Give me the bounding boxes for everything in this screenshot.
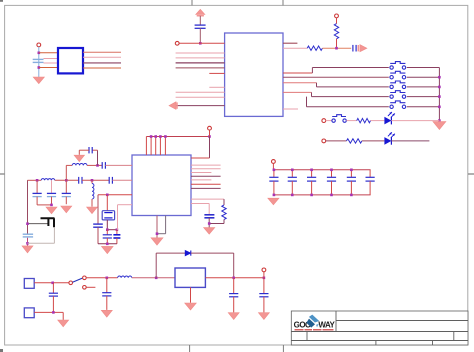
- junction C13 bottom: [52, 311, 55, 314]
- ground at bus bottom: [433, 122, 446, 130]
- capacitor C13: [327, 170, 336, 195]
- junction U2 top bus 3: [154, 135, 157, 138]
- wire C7 right leg vertical: [97, 150, 99, 165]
- terminal T2 on U1 pin1 net: [175, 41, 179, 45]
- title block outer box: [291, 311, 468, 345]
- capacitor C10: [47, 193, 56, 196]
- pushbutton SW6: [332, 115, 346, 123]
- wire D2 out: [391, 140, 429, 142]
- junction U2 top bus right: [208, 135, 211, 138]
- wire R5 to C17 bottom: [209, 223, 224, 225]
- wire U2 top pin 5: [164, 137, 166, 156]
- crystal oscillator X1: [58, 48, 83, 73]
- title block date cell divider: [375, 341, 377, 346]
- capacitor C3: [353, 45, 356, 52]
- wire joining bottom pins: [157, 233, 166, 235]
- corner zone mark top-left: [0, 0, 3, 2]
- wire X1 pin3: [44, 62, 58, 64]
- wire T1 to ground rail: [38, 47, 40, 77]
- ground cap bank: [268, 198, 279, 205]
- capacitor C18: [93, 224, 103, 227]
- wire U2 pin to C17: [191, 203, 209, 205]
- switch S1 pole: [69, 276, 86, 285]
- capacitor C14: [347, 170, 356, 195]
- svg-text:WAY: WAY: [318, 321, 335, 330]
- LED D1: [384, 112, 395, 124]
- switch S1 unused throw: [83, 286, 96, 290]
- capacitor C2: [195, 25, 206, 28]
- U2 bottom pin b: [165, 216, 167, 234]
- junction xtal top: [106, 194, 109, 197]
- ground below U2: [151, 238, 163, 245]
- logo diamond icon: [306, 315, 319, 328]
- RF rail2 segment b: [55, 179, 79, 181]
- capacitor C16: [259, 278, 268, 313]
- key matrix column bus: [438, 68, 440, 121]
- U1 left pin stub 3: [176, 57, 225, 59]
- wire SW5 jog vertical: [306, 97, 308, 107]
- wire X1 pin2: [44, 58, 58, 60]
- wire SW3 jog vertical: [316, 83, 318, 87]
- U2 right pin stub 6: [191, 183, 221, 185]
- wire R2 bottom: [336, 39, 338, 48]
- frame tick right zone divider: [468, 173, 474, 175]
- antenna ANT1 PCB symbol: [41, 218, 55, 227]
- ground below C10: [46, 207, 57, 214]
- wire U1 output net with left arrow: [171, 105, 225, 107]
- U1 right pin dark stub: [283, 42, 297, 44]
- wire row2 to R4: [326, 140, 347, 142]
- op-amp U1 main IC: [225, 33, 283, 116]
- junction bypass left: [155, 277, 158, 280]
- ground below regulator: [185, 303, 197, 310]
- junction bus row 5: [438, 106, 441, 109]
- capacitor C15: [229, 278, 238, 313]
- terminal above U2 right: [208, 126, 212, 130]
- wire C18 top vertical: [97, 195, 99, 224]
- junction rail2 left: [36, 179, 39, 182]
- wire xtal bottom tie: [107, 229, 117, 231]
- junction cap bank bottom x331: [330, 194, 333, 197]
- capacitor C17: [204, 215, 214, 218]
- junction C17 R5 ground: [208, 222, 211, 225]
- pushbutton SW4: [390, 91, 406, 99]
- corner zone mark bottom-left: [0, 349, 3, 352]
- cap bank bottom rail: [273, 194, 370, 196]
- junction cap bank bottom x311: [310, 194, 313, 197]
- resistor R1: [307, 46, 322, 50]
- junction xtal ground: [106, 243, 109, 246]
- connector J2 pad: [24, 308, 34, 318]
- RF rail2 segment d: [112, 179, 132, 181]
- capacitor C12: [307, 170, 316, 195]
- capacitor C9: [33, 193, 42, 196]
- terminal LED row2: [322, 139, 326, 143]
- wire gray return rail: [28, 242, 55, 244]
- wire U1 pin1: [179, 42, 225, 44]
- frame tick left zone divider: [0, 173, 5, 175]
- wire to SW3: [317, 86, 389, 88]
- junction cap bank bottom x292: [291, 194, 294, 197]
- junction C12 bottom: [26, 242, 29, 245]
- cap bank top rail: [273, 169, 370, 171]
- pushbutton SW5: [390, 101, 406, 109]
- capacitor C14: [102, 278, 111, 310]
- connector J1 pad: [24, 279, 34, 289]
- resistor R2: [334, 24, 338, 39]
- title block row line 2: [291, 331, 468, 333]
- title block sheet cell divider: [432, 341, 434, 346]
- inductor L1: [72, 164, 87, 166]
- capacitor C19: [103, 230, 112, 244]
- wire C7 left leg vertical: [78, 150, 80, 155]
- wire X1 pin4: [39, 67, 58, 69]
- wire SW2 to column bus: [407, 76, 440, 78]
- ground at J2 rail: [58, 320, 69, 327]
- U1 left pin stub 8: [176, 91, 225, 93]
- wire X1 out2: [83, 56, 121, 58]
- wire row1 to SW6: [326, 120, 332, 122]
- wire C17 top vertical: [208, 204, 210, 215]
- capacitor C6 series on rail2: [109, 177, 112, 184]
- junction at X1 pin1 rail: [38, 52, 41, 55]
- wire D1 to bus: [391, 120, 439, 122]
- title block row line 1: [336, 320, 468, 322]
- wire SW1 jog vertical: [311, 68, 313, 74]
- wire R5 bottom vertical: [223, 220, 225, 224]
- wire bypass up: [155, 253, 157, 278]
- wire X1 pin1: [39, 52, 58, 54]
- junction cap bank top x311: [310, 169, 313, 172]
- title block row line 3: [291, 340, 468, 342]
- terminal T1: [37, 43, 41, 47]
- U1 left pin stub 2: [176, 52, 225, 54]
- junction cap bank top x351: [350, 169, 353, 172]
- U1 right pin pink stub: [283, 108, 298, 110]
- wire X1 out1: [83, 51, 121, 53]
- capacitor C11: [62, 193, 71, 196]
- junction U2 top bus 5: [164, 135, 167, 138]
- junction bus row 4: [438, 95, 441, 98]
- junction rail2 mid: [65, 179, 68, 182]
- frame tick bottom-right zone divider: [282, 345, 284, 352]
- wire SW4 to column bus: [407, 96, 440, 98]
- resistor R4: [347, 139, 362, 143]
- junction rail2 at L3: [91, 179, 94, 182]
- junction bus LED row: [438, 119, 441, 122]
- logo red tagline: [295, 329, 334, 331]
- inductor L4: [118, 276, 132, 278]
- wire down to ground: [62, 312, 64, 320]
- inductor L2: [41, 179, 55, 181]
- RF rail1 segment b: [87, 164, 102, 166]
- wire C2 to U1 pin1 net: [199, 28, 201, 43]
- junction antenna feed: [26, 222, 29, 225]
- capacitor C7: [89, 147, 92, 153]
- RF rail1 segment c: [105, 164, 132, 166]
- wire U1 pin to SW3 jog: [283, 82, 317, 84]
- pushbutton SW2: [390, 71, 406, 79]
- ground below Y1: [102, 246, 114, 253]
- wire switch to L4: [86, 277, 117, 279]
- junction at C13 top: [51, 282, 54, 285]
- terminal 5V output: [262, 268, 266, 272]
- junction xtal cap node left: [106, 228, 109, 231]
- U1 left pin stub 5: [176, 67, 225, 69]
- wire R4 to D2: [362, 140, 385, 142]
- logo GOODWAY text: [294, 321, 336, 330]
- power arrow left on U1 net: [169, 102, 177, 110]
- U2 right pin stub 7: [191, 187, 221, 189]
- wire U1 pin to SW1 jog: [283, 72, 312, 74]
- junction regulator out terminal: [263, 277, 266, 280]
- junction cap bank bottom-left: [273, 194, 276, 197]
- wire to SW4: [312, 96, 389, 98]
- ground below C17 R5: [204, 228, 215, 235]
- wire C7 right leg horizontal: [92, 149, 97, 151]
- ground below C14: [101, 310, 112, 317]
- wire C9 bottom: [36, 197, 38, 205]
- ground below C11: [61, 206, 72, 213]
- wire R5 top vertical: [223, 199, 225, 205]
- wire C10 top: [51, 180, 53, 193]
- U2 right pin stub 2: [191, 168, 221, 170]
- junction cap bank bottom x351: [350, 194, 353, 197]
- wire C11 bottom: [65, 197, 67, 205]
- wire SW5 to column bus: [407, 106, 440, 108]
- capacitor C12 series antenna: [23, 234, 33, 237]
- U2 right pin stub 1: [191, 164, 221, 166]
- capacitor C20: [113, 230, 120, 244]
- RF rail2 segment a: [28, 179, 42, 181]
- capacitor C15: [366, 170, 375, 195]
- U1 left pin stub 9: [176, 96, 225, 98]
- junction U2 top bus 2: [150, 135, 153, 138]
- wire bypass top a: [156, 252, 185, 254]
- junction R1 R2 C3: [335, 47, 338, 50]
- RF rail2 segment c: [82, 179, 109, 181]
- wire X1 out3: [83, 62, 121, 64]
- wire C9 top: [36, 180, 38, 193]
- wire C18 bottom vertical: [97, 227, 99, 244]
- wire rails connector: [65, 165, 67, 180]
- title block rev cell divider: [453, 332, 455, 341]
- wire U2 top pin 1: [145, 137, 147, 156]
- LED D2: [384, 132, 395, 144]
- wire L3 bottom: [91, 199, 93, 207]
- terminal LED row1: [322, 119, 326, 123]
- U2 right pin stub 3: [191, 172, 211, 174]
- ground below C1: [33, 77, 44, 84]
- U1 left pin stub 7: [209, 86, 224, 88]
- junction U2 bottom pins: [156, 232, 159, 235]
- terminal on R2 top: [335, 14, 339, 18]
- ground below C16: [258, 313, 269, 320]
- wire U1 pin to R1: [283, 47, 307, 49]
- ground below C15: [228, 313, 239, 320]
- wire C10 bottom: [51, 197, 53, 205]
- resistor R5: [222, 205, 226, 220]
- junction U2 top bus 4: [159, 135, 162, 138]
- wire X1 out4: [83, 67, 121, 69]
- transceiver U2: [132, 155, 191, 216]
- wire L3 top: [91, 180, 93, 183]
- U2 bottom pin a: [156, 216, 158, 238]
- ground at C7: [74, 155, 84, 161]
- inductor L3: [92, 184, 94, 200]
- wire U2 xtal pin b: [118, 204, 133, 206]
- wire C11 top: [65, 180, 67, 193]
- wire U2 top pin 4: [159, 137, 161, 156]
- junction cap bank top-left: [273, 169, 276, 172]
- frame tick bottom-left zone divider: [189, 345, 191, 352]
- ground below C12: [22, 246, 33, 253]
- pushbutton SW1: [390, 62, 406, 70]
- junction U1 pin1 net: [199, 42, 202, 45]
- wire SW6 to R3: [346, 120, 356, 122]
- junction C9 C10 ground: [50, 204, 53, 207]
- capacitor C1: [33, 59, 44, 62]
- wire antenna feed down: [27, 180, 29, 234]
- wire U2 top pin 2: [150, 137, 152, 156]
- wire SW1 to column bus: [407, 67, 440, 69]
- wire C12 bottom: [27, 238, 29, 246]
- wire C20 top vertical: [117, 205, 119, 230]
- wire U2 top pin 3: [155, 137, 157, 156]
- wire terminal to rail: [263, 272, 265, 278]
- wire xtal ground rail: [98, 243, 117, 245]
- wire to SW2: [283, 76, 389, 78]
- capacitor C8 series on rail1: [102, 162, 105, 169]
- wire antenna feed stub: [28, 223, 49, 225]
- wire Y1 top: [106, 195, 108, 211]
- junction bus row 3: [438, 86, 441, 89]
- wire bypass top b: [191, 252, 234, 254]
- wire SW3 to column bus: [407, 86, 440, 88]
- frame tick top-left zone divider: [191, 0, 193, 5]
- wire VCC to C2: [199, 16, 201, 25]
- U1 left pin stub 6: [209, 72, 224, 74]
- wire C17 bottom vertical: [208, 218, 210, 228]
- wire to SW5: [307, 106, 389, 108]
- wire SW4 jog vertical: [311, 92, 313, 96]
- capacitor C13: [49, 283, 58, 313]
- wire antenna prong to gray rail: [53, 227, 55, 243]
- capacitor C11: [288, 170, 297, 195]
- power arrow right of C3: [358, 45, 367, 52]
- crystal Y1: [102, 211, 114, 220]
- wire R1 to junction: [322, 47, 351, 49]
- wire regulator ground pin: [190, 287, 192, 302]
- pushbutton SW3: [390, 81, 406, 89]
- diode D3: [185, 251, 191, 256]
- U2 right pin stub 5: [191, 179, 211, 181]
- junction regulator out bypass: [232, 277, 235, 280]
- wire bypass down: [233, 253, 235, 278]
- wire J1 to switch: [34, 282, 69, 284]
- wire regulator output: [205, 277, 264, 279]
- junction bus row 2: [438, 76, 441, 79]
- wire into U2 right top: [191, 157, 210, 159]
- wire terminal to bus: [209, 130, 211, 136]
- terminal cap bank VCC: [272, 160, 276, 164]
- RF rail1 segment a: [66, 164, 72, 166]
- resistor R3: [357, 118, 371, 122]
- title block logo cell divider: [335, 311, 337, 332]
- junction cap bank top x331: [330, 169, 333, 172]
- ground below L3: [87, 207, 98, 214]
- title block size cell divider: [306, 332, 308, 341]
- capacitor C5 series on rail2: [79, 177, 82, 184]
- wire C9 to C10 bottom rail: [37, 204, 51, 206]
- junction at C14 top: [106, 277, 109, 280]
- capacitor C10: [269, 170, 278, 195]
- wire to SW1: [312, 67, 388, 69]
- wire terminal to cap bank rail: [272, 163, 274, 169]
- wire Y1 bottom: [106, 220, 108, 230]
- wire J2 ground rail: [34, 311, 63, 313]
- U1 left pin stub 4: [176, 62, 225, 64]
- wire U2 xtal pin a: [98, 194, 132, 196]
- frame tick top-right zone divider: [282, 0, 284, 5]
- power VCC arrow above C2: [196, 9, 205, 15]
- wire bus down right: [209, 137, 211, 159]
- wire L4 to regulator: [132, 277, 175, 279]
- junction xtal cap node: [116, 228, 119, 231]
- junction cap bank top x292: [291, 169, 294, 172]
- wire R3 to D1: [371, 120, 385, 122]
- wire C7 left leg horizontal: [79, 149, 89, 151]
- voltage regulator U3: [175, 268, 205, 287]
- junction rail1 at C7: [96, 164, 99, 167]
- U2 right pin stub 4: [191, 175, 221, 177]
- wire R2 top: [336, 18, 338, 24]
- wire U2 pin to R5: [191, 198, 224, 200]
- junction at X1 pin4 rail: [38, 66, 41, 69]
- U2 top supply bus: [146, 136, 209, 138]
- wire U1 pin to SW4 jog: [283, 91, 312, 93]
